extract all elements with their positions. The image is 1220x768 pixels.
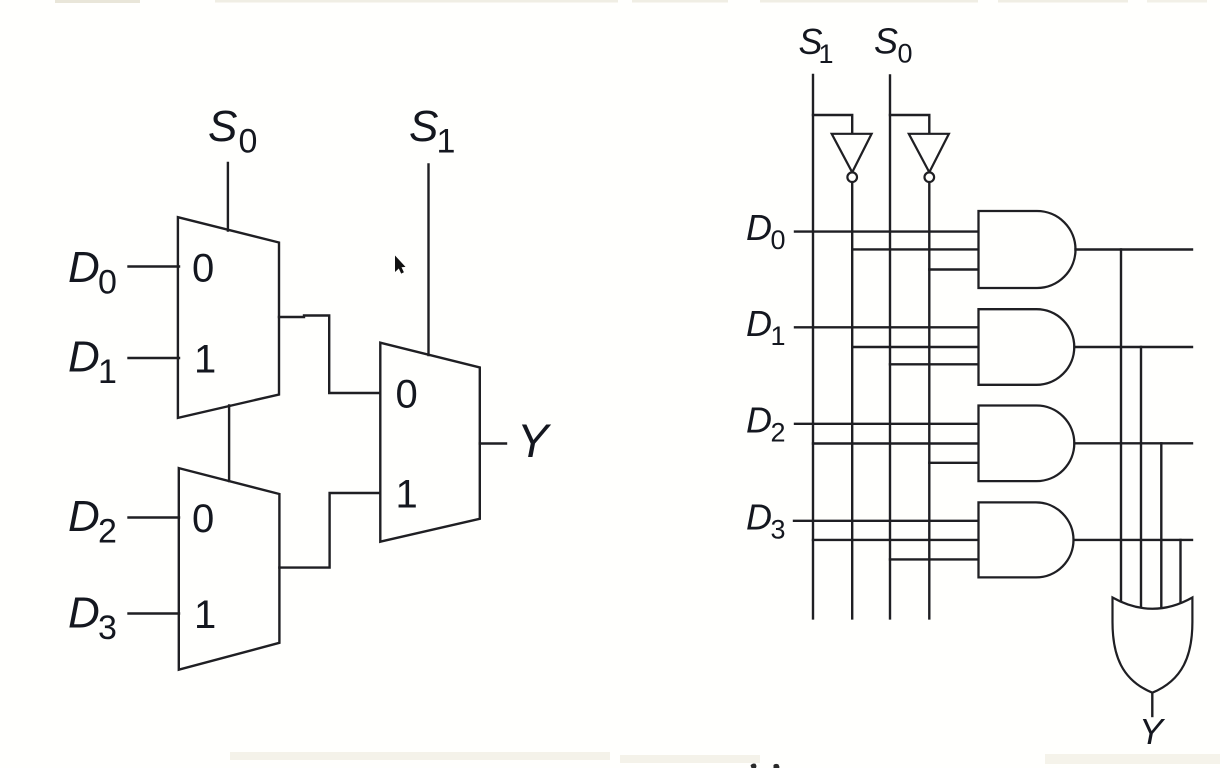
svg-text:1: 1 xyxy=(194,338,216,382)
inverter I1 (S1) xyxy=(832,134,872,173)
wire D1 input stub xyxy=(129,357,180,359)
and-gate A1 xyxy=(979,211,1076,288)
wire S1bar tap to gate A1 xyxy=(852,248,978,250)
wire U1 output to U3 input 0 xyxy=(279,316,380,394)
svg-text:0: 0 xyxy=(98,264,117,302)
wire Y output of OR xyxy=(1151,694,1153,717)
svg-text:0: 0 xyxy=(239,123,258,161)
svg-text:D: D xyxy=(68,492,100,541)
wire S0bar tap to gate A1 xyxy=(929,268,978,270)
svg-text:D: D xyxy=(746,303,772,344)
wire S0bar tap to gate A3 xyxy=(929,462,978,464)
and-gate A4 xyxy=(979,502,1074,577)
faint top strip remnants xyxy=(55,0,140,3)
svg-text:3: 3 xyxy=(98,609,117,647)
faint bottom strip remnant xyxy=(230,752,610,760)
wire S0 vertical line xyxy=(889,76,891,619)
wire A1 output xyxy=(1076,248,1193,250)
wire S1 select into U3 xyxy=(427,165,429,356)
wire D2 input stub xyxy=(129,516,180,518)
svg-text:0: 0 xyxy=(192,497,214,541)
wire S1bar tap to gate A2 xyxy=(852,346,978,348)
inverter I2 (S0) xyxy=(909,134,949,173)
wire S1 tap to gate A3 xyxy=(813,442,979,444)
or-gate O1 (pointing down) xyxy=(1113,598,1193,693)
svg-text:D: D xyxy=(746,399,772,440)
wire S0bar vertical line xyxy=(928,182,930,618)
svg-text:Y: Y xyxy=(517,414,552,467)
wire D3 input stub xyxy=(129,612,180,614)
svg-text:D: D xyxy=(746,207,772,248)
svg-text:D: D xyxy=(68,243,100,292)
cropped "(a)" caption marks at bottom xyxy=(751,764,757,768)
svg-text:0: 0 xyxy=(898,39,913,69)
wire A3 drop to OR xyxy=(1160,443,1162,608)
and-gate A3 xyxy=(979,406,1075,482)
svg-text:S: S xyxy=(874,21,898,62)
wire A2 output xyxy=(1075,346,1193,348)
svg-text:2: 2 xyxy=(98,513,117,551)
wire A4 output xyxy=(1074,539,1192,541)
wire S0 select into U1 xyxy=(227,163,229,231)
svg-text:D: D xyxy=(68,333,100,382)
wire S1bar vertical line xyxy=(851,182,853,618)
wire S0 tap to gate A4 xyxy=(890,558,979,560)
wire Y output stub xyxy=(480,442,506,444)
wire S1 vertical line xyxy=(812,75,814,618)
svg-text:3: 3 xyxy=(771,515,786,545)
mux U1 (top-left 2:1 mux trapezoid) xyxy=(178,217,279,418)
wire A2 drop to OR xyxy=(1140,347,1142,609)
svg-text:S: S xyxy=(409,102,438,151)
svg-text:1: 1 xyxy=(819,39,834,69)
wire D3 row xyxy=(794,520,979,522)
svg-text:0: 0 xyxy=(396,373,418,417)
mux U2 (bottom-left 2:1 mux trapezoid) xyxy=(179,468,280,670)
svg-text:D: D xyxy=(746,497,772,538)
wire S0 tap to gate A2 xyxy=(890,363,979,365)
svg-text:1: 1 xyxy=(771,321,786,351)
svg-text:0: 0 xyxy=(192,247,214,291)
wire D1 row xyxy=(795,326,979,328)
wire tap S0 to inverter I2 xyxy=(890,115,929,134)
svg-text:2: 2 xyxy=(771,417,786,447)
wire A1 drop to OR xyxy=(1120,250,1122,607)
wire A4 drop to OR xyxy=(1179,540,1181,606)
wire select chain U1 bottom to U2 top xyxy=(228,406,230,482)
svg-text:1: 1 xyxy=(437,123,456,161)
wire D0 input stub xyxy=(129,265,180,267)
svg-text:S: S xyxy=(208,102,237,151)
and-gate A2 xyxy=(979,309,1075,385)
svg-text:0: 0 xyxy=(771,225,786,255)
wire A3 output xyxy=(1075,442,1193,444)
svg-text:Y: Y xyxy=(1139,711,1166,752)
wire D0 row xyxy=(795,230,979,232)
wire S1 tap to gate A4 xyxy=(813,539,979,541)
wire U2 output to U3 input 1 xyxy=(279,493,380,568)
wire D2 row xyxy=(795,423,979,425)
mux U3 (output 2:1 mux trapezoid) xyxy=(380,343,480,542)
wire tap S1 to inverter I1 xyxy=(813,115,852,134)
svg-text:1: 1 xyxy=(98,353,117,391)
svg-text:1: 1 xyxy=(194,593,216,637)
mouse cursor xyxy=(395,256,406,274)
svg-text:D: D xyxy=(68,589,100,638)
svg-text:1: 1 xyxy=(396,473,418,517)
